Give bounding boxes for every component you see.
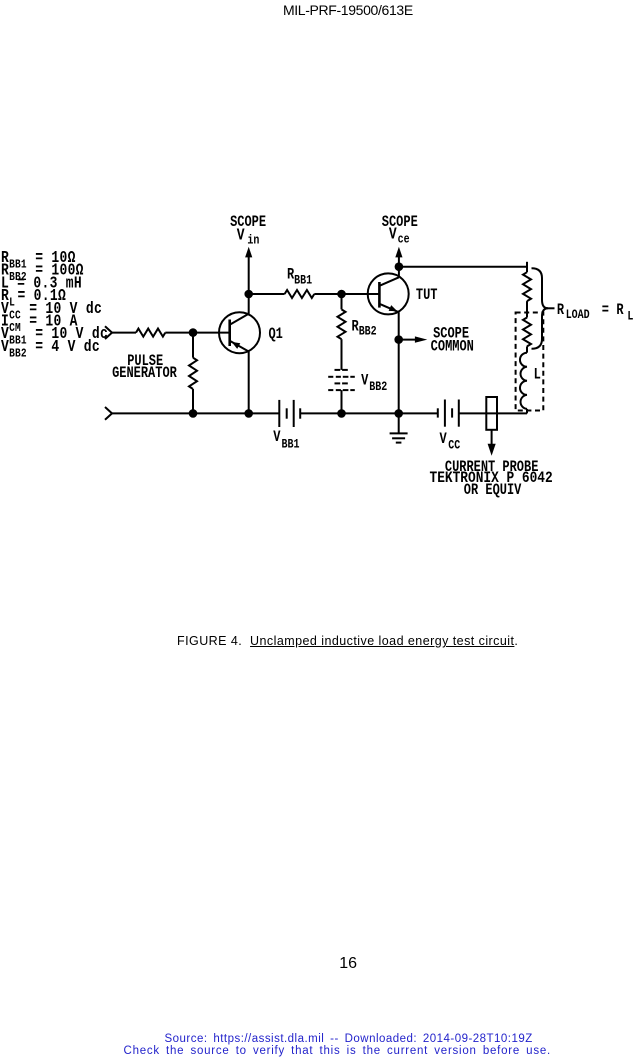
svg-text:V: V [237,227,245,245]
svg-text:SCOPE: SCOPE [382,215,418,232]
svg-text:TUT: TUT [416,288,438,305]
svg-text:GENERATOR: GENERATOR [112,366,177,383]
svg-text:V: V [440,432,448,449]
svg-text:= 4 V dc: = 4 V dc [27,339,100,357]
svg-text:BB1: BB1 [9,259,27,272]
svg-text:CM: CM [9,322,21,335]
svg-text:OR EQUIV: OR EQUIV [464,483,522,500]
svg-text:V: V [273,430,281,447]
svg-text:BB2: BB2 [9,347,27,360]
svg-text:Q1: Q1 [269,327,283,344]
svg-text:L: L [534,368,541,385]
svg-text:L: L [9,297,15,310]
svg-text:L: L [627,310,633,324]
svg-text:ce: ce [398,232,410,246]
svg-text:COMMON: COMMON [431,340,474,357]
svg-text:R: R [616,303,624,320]
svg-text:in: in [247,233,259,247]
svg-text:=: = [602,303,609,320]
svg-text:BB1: BB1 [294,274,312,288]
svg-text:BB2: BB2 [369,380,387,394]
svg-text:CC: CC [448,438,460,452]
svg-text:BB1: BB1 [9,335,27,348]
svg-text:V: V [389,226,397,244]
svg-text:BB2: BB2 [359,325,377,339]
svg-text:BB1: BB1 [282,438,300,452]
svg-text:CC: CC [9,309,21,322]
svg-text:SCOPE: SCOPE [230,215,266,232]
svg-text:R: R [557,303,565,320]
svg-text:V: V [361,374,369,391]
svg-text:V: V [1,339,9,357]
svg-text:LOAD: LOAD [566,308,590,322]
